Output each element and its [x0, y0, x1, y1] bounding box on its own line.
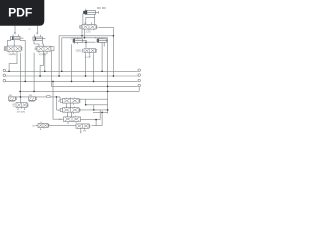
wire cylinder link center: [81, 42, 96, 48]
wire valve 1V3 bottom ports down: [82, 29, 85, 38]
PDF badge: [0, 0, 44, 26]
bus line L5: [20, 87, 139, 92]
wire row2-row3 port stubs: [68, 112, 72, 117]
valve 1V1: [4, 46, 22, 54]
bus line L3: [6, 80, 137, 82]
wire valve 1V1 down-bend: [9, 53, 17, 72]
wire under badge to cylinder 1A2: [37, 26, 39, 35]
wire valve 1V2 left port down: [33, 53, 35, 92]
roller valve 1S2: [29, 97, 37, 102]
valve 1V4 center: [82, 49, 97, 58]
wire cylinder 1A1 loop: [7, 40, 25, 82]
wire under badge to cylinder 1A1: [14, 26, 16, 35]
port circle left 1: [3, 69, 6, 72]
valve row1: [60, 97, 80, 104]
svg-text:PDF: PDF: [8, 6, 32, 20]
cylinder 1A1: [11, 34, 24, 39]
svg-text:CEN: CEN: [76, 50, 81, 52]
svg-text:1 3 5: 1 3 5: [86, 32, 92, 34]
valve 1V2: [35, 46, 54, 54]
cylinder 1A2: [33, 35, 46, 41]
svg-text:1(P) 3(R): 1(P) 3(R): [17, 111, 26, 113]
port circle right 3: [137, 79, 140, 82]
port circle right 1: [137, 69, 140, 72]
port circle left 3: [3, 79, 6, 82]
valve row2: [60, 107, 80, 114]
bus line L4: [51, 85, 137, 87]
wire valve 1V3 right port to vertical bus: [99, 27, 114, 76]
svg-text:1(P)3(R): 1(P)3(R): [39, 54, 47, 56]
port circle right 2: [137, 74, 140, 77]
wire valve 1V2 down-bend: [40, 51, 43, 76]
wire horizontal y38: [62, 38, 108, 72]
junction dots: [8, 35, 114, 120]
valve 1V3: [80, 23, 98, 31]
wire cylinder 1A2 loop: [34, 41, 43, 47]
svg-text:BYP: BYP: [33, 125, 38, 127]
wire pilot box down to L3: [50, 51, 52, 86]
wire cascade row3 loop: [81, 120, 101, 126]
wire cascade vertical D: [107, 38, 109, 114]
wire row3 feed: [53, 81, 64, 119]
cylinder 1C2: [97, 37, 108, 42]
wire cylinder 1C1 port down: [71, 44, 73, 81]
wire horizontal y36: [59, 36, 113, 76]
svg-text:1 3 5: 1 3 5: [85, 57, 91, 59]
wire cascade stair v1: [86, 99, 108, 105]
valve 1V7 bottom-center: [76, 124, 90, 133]
wire loop cylinder 1A3 to valve 1V3: [83, 13, 95, 24]
wire cascade inner C: [93, 111, 108, 113]
wire roller feed horizontal: [8, 97, 63, 101]
inline component on feed wire: [47, 95, 50, 97]
wire row3 exhaust stubs: [68, 122, 76, 123]
svg-text:2(A)3(R): 2(A)3(R): [9, 53, 17, 56]
wire valve 1V4 ports down: [86, 54, 94, 81]
wire cascade row2 loop: [79, 109, 108, 111]
port circle right 4: [137, 84, 140, 87]
cylinder 1A3 top: [83, 9, 98, 15]
wire row1-row2 port stubs: [67, 103, 71, 108]
wire valve 1V2 port down to L1: [44, 53, 46, 72]
bus line L2: [6, 75, 137, 77]
wire cascade stair v3: [99, 110, 101, 120]
port circle left 2: [3, 74, 6, 77]
svg-text:MO MO: MO MO: [97, 6, 106, 10]
bus line L1: [6, 70, 137, 72]
wire cascade row1 loop: [79, 98, 108, 100]
wire cylinder 1A4 port down: [102, 42, 104, 72]
valve 1V6 bottom-left: [38, 121, 49, 129]
valve 1V5 lower-left: [16, 103, 28, 110]
roller valve 1S1: [9, 97, 17, 102]
cylinder 1C1: [73, 37, 87, 44]
valve row3: [64, 116, 81, 122]
wire bottom manifold: [36, 112, 102, 125]
wire V1 right down to roller feed: [20, 53, 22, 103]
wire cascade stair v2: [93, 105, 95, 110]
wire row2 feed: [57, 97, 63, 110]
